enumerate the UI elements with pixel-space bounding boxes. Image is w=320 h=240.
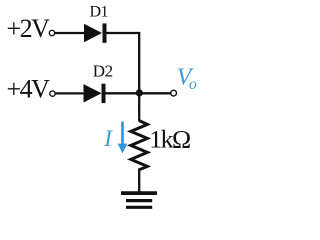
diode D2 triangle <box>84 84 102 102</box>
svg-text:I: I <box>103 126 113 151</box>
wire D1 cathode to top-right corner and down to junction <box>106 33 139 93</box>
current arrow I head <box>118 144 128 154</box>
svg-text:D2: D2 <box>93 62 113 81</box>
ground bar 1 <box>121 191 157 195</box>
svg-text:o: o <box>189 76 197 93</box>
terminal circle input 1 <box>49 30 54 35</box>
svg-text:D1: D1 <box>90 4 109 21</box>
diode D1 cathode bar <box>103 23 107 42</box>
junction node dot <box>136 89 143 96</box>
terminal circle input 2 <box>50 91 55 96</box>
wire resistor bottom to ground <box>138 169 140 192</box>
output terminal circle <box>171 90 177 96</box>
svg-text:1kΩ: 1kΩ <box>149 124 190 153</box>
svg-text:+4V: +4V <box>7 75 51 104</box>
wire D2 cathode to output terminal <box>106 92 171 94</box>
diode D2 cathode bar <box>102 84 106 103</box>
resistor R 1k zigzag <box>131 121 148 170</box>
diode D1 triangle <box>84 24 102 42</box>
wire junction down to resistor top <box>138 93 140 121</box>
svg-text:+2V: +2V <box>7 14 51 43</box>
ground bar 3 <box>126 206 152 209</box>
wire input2 to D2 anode <box>55 92 84 94</box>
wire input1 to D1 anode <box>55 32 85 34</box>
current arrow I shaft <box>121 122 124 147</box>
ground bar 2 <box>126 199 152 202</box>
